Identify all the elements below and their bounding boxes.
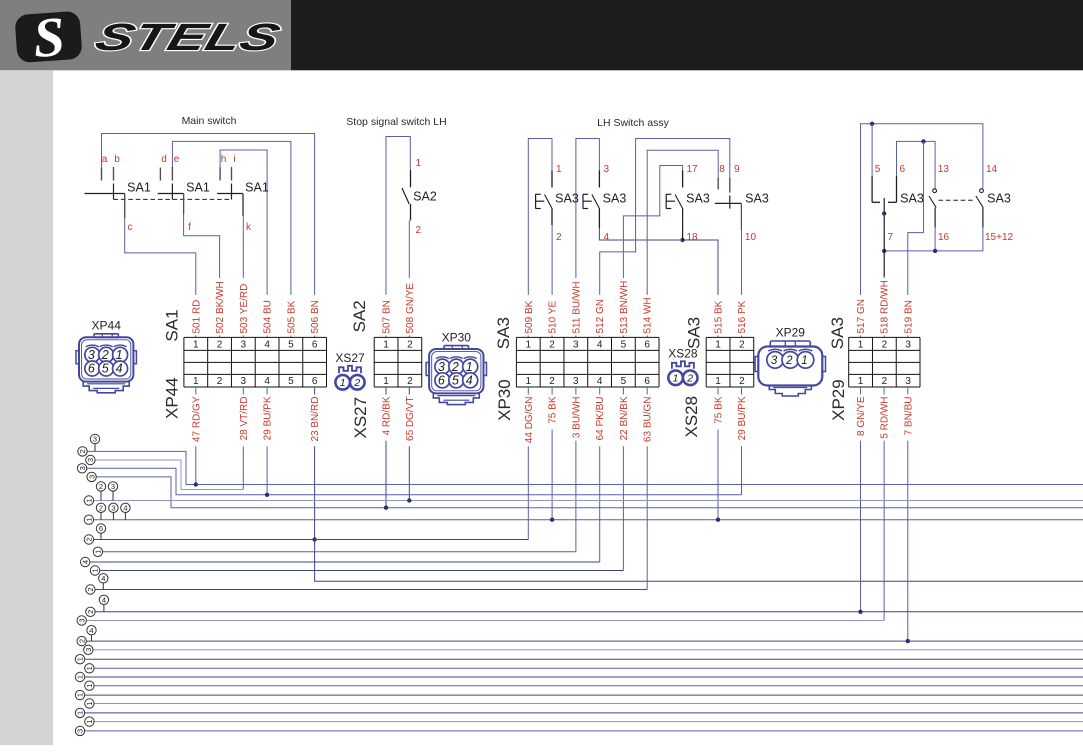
svg-text:501 RD: 501 RD xyxy=(191,300,202,334)
label 502 BK/WH xyxy=(215,278,224,335)
label 75 BK xyxy=(548,395,557,430)
wire bus 517GN-5-14 xyxy=(861,124,983,338)
label 514 WH xyxy=(643,295,652,336)
svg-text:507 BN: 507 BN xyxy=(382,300,393,333)
node stub circle 4@578 xyxy=(102,583,104,590)
wire w8 xyxy=(103,551,576,553)
node stub circle 4@599 xyxy=(103,605,105,612)
label 29 BU/PK xyxy=(263,395,272,447)
svg-text:SA2: SA2 xyxy=(350,300,369,332)
wire RH bottom bus 7-16-15+12 xyxy=(884,228,983,251)
svg-text:6: 6 xyxy=(99,524,103,533)
svg-text:3: 3 xyxy=(241,376,247,387)
svg-text:S: S xyxy=(31,6,66,70)
wire w17 xyxy=(94,667,1083,669)
connector XP44 xyxy=(76,334,136,393)
junction dot 552.1,519.7 xyxy=(550,518,554,522)
svg-text:2: 2 xyxy=(451,360,459,374)
svg-text:SA1: SA1 xyxy=(163,309,182,341)
wire 507BN to SA2 pin1 xyxy=(386,137,410,338)
svg-text:1: 1 xyxy=(556,164,562,175)
svg-text:2: 2 xyxy=(217,340,223,351)
svg-text:SA1: SA1 xyxy=(127,181,151,195)
svg-text:SA3: SA3 xyxy=(686,192,710,206)
node w3 circle xyxy=(77,464,86,473)
wire bus h-504BU xyxy=(220,150,267,337)
svg-text:2: 2 xyxy=(549,376,555,387)
node w2 circle xyxy=(86,455,95,464)
svg-text:502 BK/WH: 502 BK/WH xyxy=(215,281,226,333)
svg-text:5: 5 xyxy=(621,340,627,351)
node w8 circle xyxy=(93,547,102,556)
svg-text:SA3: SA3 xyxy=(494,317,513,349)
svg-text:1: 1 xyxy=(85,701,94,705)
svg-text:1: 1 xyxy=(85,666,94,670)
svg-text:3: 3 xyxy=(78,466,87,470)
connector table XS27/SA2 xyxy=(374,337,422,387)
svg-text:4: 4 xyxy=(101,574,105,583)
wire pin7 to 518RD/WH xyxy=(883,228,885,277)
svg-text:63 BU/GN: 63 BU/GN xyxy=(643,397,654,443)
svg-text:3: 3 xyxy=(438,360,445,374)
svg-text:1: 1 xyxy=(416,158,422,169)
wire w13 xyxy=(86,620,884,622)
svg-text:d: d xyxy=(161,154,167,165)
svg-text:4: 4 xyxy=(89,626,93,635)
switch SA3 RH-3 (14/15+12) xyxy=(980,189,984,193)
label 511 BU/WH xyxy=(572,278,581,335)
junction dot 267.1,494.8 xyxy=(265,493,269,497)
wire 29BU/PK drop xyxy=(266,387,268,495)
label 513 BN/WH xyxy=(619,278,628,335)
switch SA3 LH-4 (8/9/10) xyxy=(717,178,719,190)
wire w11 xyxy=(95,589,647,591)
svg-text:5: 5 xyxy=(288,340,294,351)
wire w3 xyxy=(87,468,742,495)
switch SA3 LH-3 (17/18) xyxy=(682,170,684,187)
svg-text:SA1: SA1 xyxy=(186,181,210,195)
svg-text:SA3: SA3 xyxy=(745,192,769,206)
wire w2 xyxy=(95,460,243,490)
svg-text:519 BN: 519 BN xyxy=(903,300,914,333)
svg-text:1: 1 xyxy=(193,376,199,387)
svg-text:4: 4 xyxy=(466,374,473,388)
svg-text:5: 5 xyxy=(452,374,459,388)
svg-text:4: 4 xyxy=(264,340,270,351)
wire f-502BK/WH xyxy=(184,194,220,338)
svg-text:3: 3 xyxy=(88,348,95,362)
svg-text:515 BK: 515 BK xyxy=(714,300,725,333)
node w11 circle xyxy=(86,585,95,594)
svg-text:6: 6 xyxy=(88,362,95,376)
label 5 RD/WH xyxy=(880,395,889,441)
svg-text:65 DG/VT: 65 DG/VT xyxy=(405,397,416,441)
node w5 circle xyxy=(84,496,93,505)
node stub circle 3@507 xyxy=(112,513,114,520)
wire w20 xyxy=(85,694,1083,696)
wire LH pin10 to 516PK xyxy=(740,203,742,230)
label 510 YE xyxy=(548,295,557,336)
wire bus2 6-13-519BN xyxy=(897,141,936,188)
svg-text:2: 2 xyxy=(739,340,745,351)
node stub circle 2@507 xyxy=(100,513,102,520)
svg-text:a: a xyxy=(102,154,108,165)
svg-text:6: 6 xyxy=(312,340,318,351)
wire 28VT/RD drop xyxy=(242,387,244,490)
label 517 GN xyxy=(856,295,865,336)
label 63 BU/GN xyxy=(643,395,652,447)
svg-text:b: b xyxy=(114,154,120,165)
header band gray xyxy=(0,0,291,70)
label 512 GN xyxy=(595,295,604,336)
label 8 GN/YE xyxy=(856,395,865,441)
wire 3BU/WH drop xyxy=(575,387,577,552)
svg-text:3: 3 xyxy=(604,164,610,175)
svg-text:3: 3 xyxy=(111,482,115,491)
switch SA3 LH-1 (1/2) xyxy=(551,170,553,187)
svg-text:513 BN/WH: 513 BN/WH xyxy=(619,281,630,334)
svg-text:14: 14 xyxy=(986,164,998,175)
svg-text:5: 5 xyxy=(875,164,881,175)
svg-text:2: 2 xyxy=(85,537,94,541)
label 505 BK xyxy=(287,295,296,336)
svg-text:4: 4 xyxy=(116,362,123,376)
svg-text:4: 4 xyxy=(102,596,106,605)
node w20 circle xyxy=(75,690,84,699)
svg-text:6: 6 xyxy=(438,374,445,388)
svg-text:f: f xyxy=(188,222,191,233)
svg-text:SA3: SA3 xyxy=(685,317,704,349)
node w17 circle xyxy=(85,664,94,673)
svg-text:3: 3 xyxy=(241,340,247,351)
wire 4RD/BK drop xyxy=(385,387,387,508)
svg-text:3: 3 xyxy=(771,355,778,367)
wire 75BK drop XP30 xyxy=(551,387,553,520)
junction pin18/pin4 xyxy=(680,238,684,242)
svg-text:1: 1 xyxy=(340,377,346,389)
svg-text:29 BU/PK: 29 BU/PK xyxy=(737,396,748,440)
svg-text:2: 2 xyxy=(407,376,413,387)
svg-text:4: 4 xyxy=(604,232,610,243)
node stub circle 3@486 xyxy=(112,491,114,500)
node w16 circle xyxy=(75,655,84,664)
svg-text:509 BK: 509 BK xyxy=(524,300,535,333)
switch SA1 pole 3 (h/i) xyxy=(219,168,221,181)
label 501 RD xyxy=(192,295,201,336)
svg-text:1: 1 xyxy=(858,340,864,351)
label 47 RD/GY xyxy=(192,395,201,447)
wire w4 xyxy=(96,477,1083,508)
wire bus a-506BN xyxy=(102,134,315,338)
wire w5 xyxy=(94,500,1083,502)
wire 23BN/RD drop xyxy=(315,387,1083,581)
label 509 BK xyxy=(524,295,533,336)
junction bus2 tap xyxy=(921,139,925,143)
node w12 circle xyxy=(86,607,95,616)
svg-text:2: 2 xyxy=(77,639,86,643)
node w18 circle xyxy=(75,672,84,681)
node w4 circle xyxy=(87,472,96,481)
svg-text:1: 1 xyxy=(715,376,721,387)
header band black xyxy=(291,0,1083,70)
wire 509BK to LH pin1 xyxy=(528,139,552,338)
svg-text:3: 3 xyxy=(905,340,911,351)
wire w24 xyxy=(85,730,1083,732)
node w1 circle xyxy=(78,447,87,456)
svg-text:510 YE: 510 YE xyxy=(548,301,559,334)
svg-text:29 BU/PK: 29 BU/PK xyxy=(263,396,274,440)
node w15 circle xyxy=(84,645,93,654)
svg-text:6: 6 xyxy=(312,376,318,387)
svg-text:XS28: XS28 xyxy=(668,346,698,360)
svg-text:517 GN: 517 GN xyxy=(856,299,867,333)
svg-text:75 BK: 75 BK xyxy=(714,396,725,424)
svg-text:1: 1 xyxy=(193,340,199,351)
label 28 VT/RD xyxy=(239,395,248,447)
svg-text:22 BN/BK: 22 BN/BK xyxy=(619,396,630,440)
svg-text:47 RD/GY: 47 RD/GY xyxy=(191,396,202,442)
svg-text:8 GN/YE: 8 GN/YE xyxy=(856,396,867,436)
svg-text:Stop signal switch LH: Stop signal switch LH xyxy=(346,116,446,128)
node w10 circle xyxy=(90,566,99,575)
label 519 BN xyxy=(904,295,913,336)
switch SA2 xyxy=(410,170,412,187)
wire w15 xyxy=(93,649,1083,651)
label 503 YE/RD xyxy=(239,278,248,335)
wire 22BN/BK drop xyxy=(622,387,624,571)
label 508 GN/YE xyxy=(405,278,414,335)
node w23 circle xyxy=(85,717,94,726)
svg-text:XP44: XP44 xyxy=(163,377,182,419)
switch SA3 RH-1 (5/6/7) xyxy=(871,176,873,203)
label 75 BK xyxy=(714,395,723,430)
wire w1 xyxy=(87,451,1083,484)
label 504 BU xyxy=(263,295,272,336)
svg-text:2: 2 xyxy=(739,376,745,387)
svg-text:1: 1 xyxy=(76,693,85,697)
wire w22 xyxy=(85,712,1083,714)
svg-text:SA3: SA3 xyxy=(555,192,579,206)
svg-text:64 PK/BU: 64 PK/BU xyxy=(595,397,606,441)
svg-text:3: 3 xyxy=(76,729,85,733)
wire 5RD/WH drop xyxy=(883,387,885,621)
label 23 BN/RD xyxy=(310,395,319,447)
svg-text:10: 10 xyxy=(745,232,757,243)
svg-text:SA3: SA3 xyxy=(603,192,627,206)
junction dot 195.8,484.5 xyxy=(194,482,198,486)
wire 65DG/VT drop xyxy=(408,387,410,501)
svg-text:2: 2 xyxy=(86,587,95,591)
wire w18 xyxy=(85,676,1083,678)
svg-text:2: 2 xyxy=(686,373,693,385)
svg-text:4: 4 xyxy=(123,504,127,513)
switch SA1 pole 2 (d/e) xyxy=(159,168,161,181)
node stub circle 3@439 xyxy=(94,444,96,452)
label 22 BN/BK xyxy=(619,395,628,447)
svg-text:3: 3 xyxy=(111,504,115,513)
wire w14 xyxy=(86,640,1083,642)
svg-text:8: 8 xyxy=(719,164,725,175)
svg-text:17: 17 xyxy=(687,164,699,175)
svg-text:514 WH: 514 WH xyxy=(643,297,654,333)
junction bottom bus pin7 xyxy=(882,249,886,253)
svg-text:3 BU/WH: 3 BU/WH xyxy=(571,397,582,439)
svg-text:15+12: 15+12 xyxy=(985,232,1014,243)
svg-text:1: 1 xyxy=(76,657,85,661)
svg-text:2: 2 xyxy=(99,504,103,513)
RH coupling dashed link xyxy=(939,199,974,201)
svg-text:1: 1 xyxy=(94,550,103,554)
svg-text:2: 2 xyxy=(416,225,422,236)
svg-text:1: 1 xyxy=(85,720,94,724)
wire 519BN drop xyxy=(908,141,924,337)
wire k-503YE/RD xyxy=(242,194,244,338)
junction dot 860.5,611.8 xyxy=(858,610,862,614)
svg-text:28 VT/RD: 28 VT/RD xyxy=(239,397,250,441)
svg-text:3: 3 xyxy=(77,618,86,622)
wire 75BK drop XS28 xyxy=(717,387,719,520)
svg-text:Main switch: Main switch xyxy=(182,115,237,127)
wire pin5 branch xyxy=(871,124,873,176)
svg-text:2: 2 xyxy=(556,232,562,243)
label 507 BN xyxy=(382,295,391,336)
wire w9 xyxy=(90,561,600,563)
svg-text:5: 5 xyxy=(288,376,294,387)
svg-text:2: 2 xyxy=(78,449,87,453)
svg-text:505 BK: 505 BK xyxy=(286,300,297,333)
svg-text:2: 2 xyxy=(99,482,103,491)
svg-text:3: 3 xyxy=(84,648,93,652)
junction dot 718.0,519.7 xyxy=(716,518,720,522)
svg-text:1: 1 xyxy=(76,675,85,679)
svg-text:XP29: XP29 xyxy=(776,326,806,340)
svg-text:16: 16 xyxy=(938,232,950,243)
svg-text:SA2: SA2 xyxy=(413,190,437,204)
svg-text:2: 2 xyxy=(882,340,888,351)
svg-text:XS27: XS27 xyxy=(351,397,370,439)
svg-text:2: 2 xyxy=(549,340,555,351)
svg-text:XS27: XS27 xyxy=(335,351,365,365)
svg-text:9: 9 xyxy=(734,164,740,175)
svg-text:7: 7 xyxy=(888,232,894,243)
svg-text:2: 2 xyxy=(217,376,223,387)
svg-text:44 DG/GN: 44 DG/GN xyxy=(524,397,535,444)
svg-text:1: 1 xyxy=(526,376,532,387)
svg-text:3: 3 xyxy=(87,475,96,479)
svg-text:e: e xyxy=(174,154,180,165)
node w24 circle xyxy=(75,726,84,735)
svg-text:2: 2 xyxy=(86,610,95,614)
connector XS27 xyxy=(335,366,364,390)
connector table XP30/SA3 xyxy=(516,337,659,387)
svg-text:1: 1 xyxy=(801,355,807,367)
junction dot 386.0,507.7 xyxy=(384,506,388,510)
svg-text:SA3: SA3 xyxy=(900,192,924,206)
node w6 circle xyxy=(84,515,93,524)
svg-text:508 GN/YE: 508 GN/YE xyxy=(405,283,416,334)
svg-text:6: 6 xyxy=(644,340,650,351)
svg-text:504 BU: 504 BU xyxy=(263,300,274,333)
connector XS28 xyxy=(668,361,697,385)
wire LH pin2 to 510YE xyxy=(551,208,553,225)
svg-text:75 BK: 75 BK xyxy=(548,396,559,424)
junction dot 907.8,641.1 xyxy=(906,639,910,643)
svg-text:i: i xyxy=(233,154,235,165)
node w9 circle xyxy=(81,557,90,566)
node w22 circle xyxy=(75,708,84,717)
wire 63BU/GN drop xyxy=(646,387,648,590)
junction 23BN/RD-w7 xyxy=(312,537,316,541)
wire bus1 pin9-512GN xyxy=(600,139,730,338)
node stub circle 4@630 xyxy=(91,635,93,641)
junction pin7 pivot xyxy=(882,211,886,215)
node w13 circle xyxy=(77,616,86,625)
svg-text:4: 4 xyxy=(597,340,603,351)
wire bus3 pin17-513BN/WH xyxy=(623,166,682,338)
svg-text:4: 4 xyxy=(597,376,603,387)
connector table XS28/SA3 xyxy=(706,337,754,387)
node stub circle 4@507 xyxy=(124,513,126,520)
svg-text:1: 1 xyxy=(383,340,389,351)
wire w21 xyxy=(94,703,1083,705)
wire w19 xyxy=(94,685,1083,687)
wire bus2 pin8-514WH xyxy=(647,150,718,337)
wire 47RD/GY drop xyxy=(195,387,197,485)
svg-text:516 PK: 516 PK xyxy=(737,300,748,333)
svg-text:6: 6 xyxy=(900,164,906,175)
svg-text:5: 5 xyxy=(102,362,109,376)
svg-text:2: 2 xyxy=(407,340,413,351)
svg-text:1: 1 xyxy=(85,684,94,688)
wire c-501RD xyxy=(125,194,196,338)
svg-text:3: 3 xyxy=(573,376,579,387)
svg-text:5: 5 xyxy=(621,376,627,387)
svg-text:3: 3 xyxy=(573,340,579,351)
label 506 BN xyxy=(310,295,319,336)
wire bus e-505BK xyxy=(172,141,291,337)
connector XP30 xyxy=(426,346,486,405)
wire 7BN/BU drop xyxy=(907,387,909,641)
label 7 BN/BU xyxy=(904,395,913,441)
svg-text:3: 3 xyxy=(86,458,95,462)
connector XP29 xyxy=(755,341,825,396)
svg-text:XP29: XP29 xyxy=(829,379,848,421)
svg-text:518 RD/WH: 518 RD/WH xyxy=(880,280,891,333)
svg-text:XP44: XP44 xyxy=(92,319,122,333)
svg-text:1: 1 xyxy=(85,518,94,522)
svg-text:1: 1 xyxy=(383,376,389,387)
svg-text:18: 18 xyxy=(687,232,699,243)
svg-text:1: 1 xyxy=(673,373,679,385)
svg-text:2: 2 xyxy=(353,377,360,389)
node w21 circle xyxy=(85,699,94,708)
node w7 circle xyxy=(84,535,93,544)
label 515 BK xyxy=(714,295,723,336)
svg-text:1: 1 xyxy=(76,711,85,715)
svg-text:2: 2 xyxy=(785,355,793,367)
node w14 circle xyxy=(77,636,86,645)
node w19 circle xyxy=(85,681,94,690)
junction bottom bus pin16 xyxy=(933,249,937,253)
node stub circle 6@528 xyxy=(100,533,102,539)
wire w6 xyxy=(94,519,1083,521)
svg-text:512 GN: 512 GN xyxy=(595,299,606,333)
svg-text:SA3: SA3 xyxy=(987,192,1011,206)
switch SA3 RH-2 (13/16) xyxy=(933,189,937,193)
label 518 RD/WH xyxy=(880,278,889,335)
svg-text:4: 4 xyxy=(264,376,270,387)
svg-text:13: 13 xyxy=(938,164,950,175)
